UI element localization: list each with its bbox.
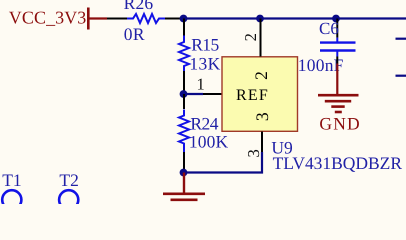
svg-text:R24: R24 [190,113,218,133]
svg-text:VCC_3V3: VCC_3V3 [9,7,87,27]
svg-text:0R: 0R [124,24,145,44]
capacitor C6 [298,19,356,75]
wire R15 to node D [183,71,185,94]
ground symbol at node E [163,173,205,206]
svg-text:TLV431BQDBZR: TLV431BQDBZR [273,153,403,173]
pin 3 of U9 (bottom) [261,132,263,153]
pin 1 of U9 [203,93,222,95]
wire R24 to node E [183,152,185,173]
svg-text:T2: T2 [59,170,78,190]
svg-text:R15: R15 [191,34,219,54]
svg-text:GND: GND [319,114,359,134]
svg-text:R26: R26 [124,0,154,13]
resistor R15 [179,34,221,73]
resistor R24 [179,110,229,153]
wire main horizontal net [184,17,406,19]
op-amp U9 body (TLV431 box) [222,57,298,132]
test point T2 [59,170,79,209]
junction node D [180,90,188,98]
junction node B (pin2 branch) [256,15,264,23]
svg-text:T1: T1 [2,170,21,190]
svg-text:13K: 13K [189,54,220,74]
svg-text:2: 2 [241,33,260,41]
svg-text:C6: C6 [319,19,339,38]
wire node D to pin 1 [184,93,203,95]
svg-text:REF: REF [236,87,268,104]
wire node E to pin 3 [184,152,262,173]
ground symbol GND [318,64,360,134]
wire node D down to R24 [183,94,185,109]
wire R26 to node A [165,18,184,20]
wire VCC to R26 pin [107,18,127,20]
power port VCC_3V3 [9,7,107,29]
test point T1 [2,170,21,209]
wire node C down to C6 [336,19,338,38]
pin stub right edge upper [396,38,406,40]
svg-text:2: 2 [251,71,271,80]
pin of C6 to ground [336,57,338,64]
svg-text:1: 1 [197,75,205,94]
junction node C (C6 branch) [332,15,340,23]
svg-text:3: 3 [252,112,272,121]
junction node A [180,15,188,23]
wire node A down to R15 [183,19,185,36]
pin stub right edge lower [396,75,406,77]
svg-text:100K: 100K [189,131,229,151]
junction node E [180,169,188,177]
pin 2 of U9 (top) [260,19,262,57]
resistor R26 [124,0,165,44]
svg-text:3: 3 [244,149,263,157]
